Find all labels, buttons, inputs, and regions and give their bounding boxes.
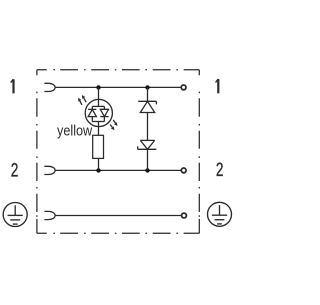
resistor R1 (93, 135, 104, 158)
svg-text:2: 2 (11, 159, 19, 181)
pin label 2 (right) (216, 158, 224, 180)
wire line 2 (55, 169, 181, 171)
pin label 1 (right) (216, 79, 219, 93)
wire V1 to V2 (147, 113, 149, 141)
protective earth symbol right (208, 202, 232, 226)
wire LED circle to resistor (98, 122, 100, 136)
terminal circle earth right (182, 213, 187, 218)
LED left diode (cathode up) (88, 106, 96, 121)
wire line 1 (55, 86, 181, 88)
LED internal top rail (92, 105, 104, 107)
junction dot line2/LED branch (96, 168, 100, 172)
junction dot line2/diode branch (145, 168, 149, 172)
suppressor diode V1 (cathode up, Z-bar hook right) (138, 101, 156, 112)
terminal circle pin 2 right (181, 168, 186, 173)
wire line1 to LED circle (98, 87, 100, 106)
socket contact earth pin (44, 211, 55, 219)
svg-text:2: 2 (216, 158, 224, 180)
suppressor diode V2 (cathode down, Z-bar hook left) (138, 140, 157, 149)
pin label 1 (left) (11, 79, 14, 93)
socket contact pin 2 (44, 166, 55, 174)
junction dot line1/LED branch (96, 85, 100, 89)
socket contact pin 1 (44, 83, 55, 91)
LED indicator circle (85, 99, 112, 126)
LED internal bottom rail (92, 121, 104, 123)
LED right diode (cathode down) (100, 106, 108, 121)
protective earth symbol left (3, 203, 27, 227)
label yellow (57, 123, 92, 139)
pin label 2 (left) (11, 159, 19, 181)
terminal circle pin 1 right (181, 85, 186, 90)
wire line1 to suppressor diode V1 (147, 87, 149, 101)
svg-text:yellow: yellow (57, 123, 92, 139)
wire resistor to line 2 (98, 158, 100, 170)
LED emission arrows lower-right (110, 120, 117, 130)
frame (dash-dot enclosure border) (37, 70, 199, 234)
LED emission arrows upper-left (78, 95, 86, 105)
junction dot line1/diode branch (145, 85, 149, 89)
wire line 3 (earth) (55, 215, 181, 217)
wire V2 to line 2 (147, 149, 149, 170)
